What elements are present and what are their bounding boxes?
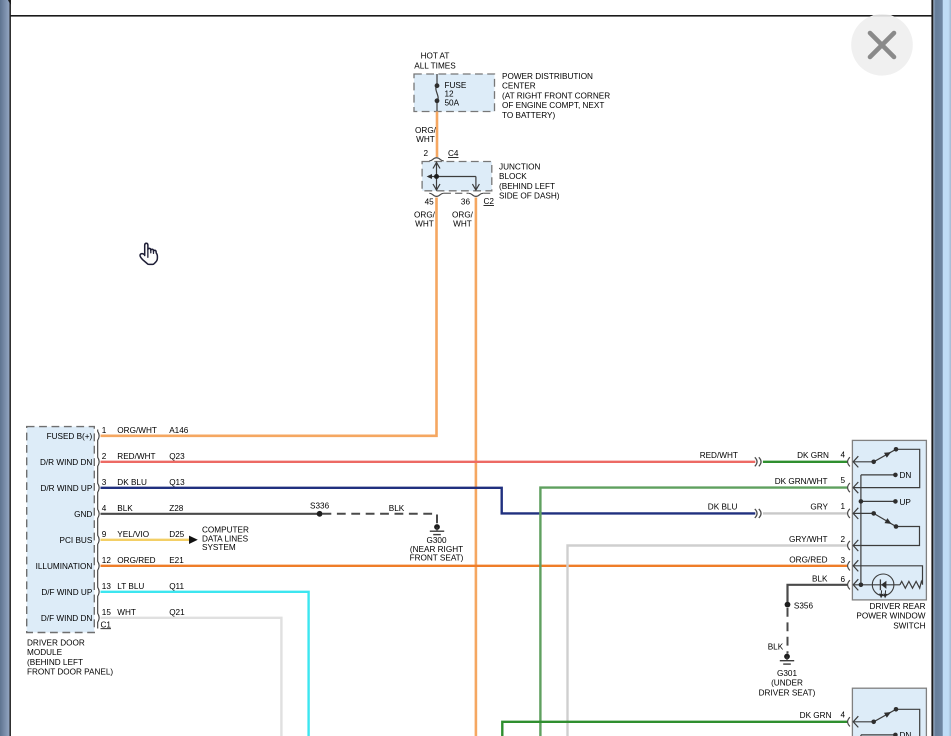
wire WHT module pin 15 down (101, 618, 282, 736)
second switch dots (871, 707, 898, 736)
svg-text:9: 9 (102, 530, 107, 539)
second switch box (passenger rear power window switch, cut off) (852, 688, 926, 736)
svg-text:C4: C4 (448, 149, 459, 158)
svg-text:DATA LINES: DATA LINES (202, 534, 249, 543)
svg-text:DK GRN/WHT: DK GRN/WHT (775, 477, 828, 486)
pin 4 number and wire labels BLK Z28 (102, 504, 184, 513)
switch pin entry chevron arrows (853, 456, 858, 590)
module connector C1 line with pin bumps (98, 430, 99, 629)
svg-text:Q21: Q21 (169, 608, 185, 617)
wire BLK module pin 4 to splice S336 (101, 513, 320, 515)
svg-text:DRIVER DOOR: DRIVER DOOR (27, 638, 85, 647)
svg-text:ALL TIMES: ALL TIMES (414, 61, 456, 70)
wire BLK dashed S356 to G301 (787, 608, 789, 654)
svg-text:(BEHIND LEFT: (BEHIND LEFT (27, 658, 83, 667)
svg-text:G300: G300 (426, 536, 446, 545)
top-left corner notch (8, 0, 11, 5)
DN line (861, 474, 896, 476)
pin 3 line to resistor rail (853, 566, 922, 585)
svg-text:13: 13 (102, 582, 112, 591)
pin 1 to pin 2 inner rect (853, 527, 919, 546)
vertical rail (860, 475, 862, 585)
svg-text:50A: 50A (445, 98, 460, 107)
svg-text:G301: G301 (777, 669, 797, 678)
svg-text:DRIVER SEAT): DRIVER SEAT) (759, 688, 816, 697)
connector arc C4 (429, 158, 443, 161)
pin 12 number and wire labels ORG/RED E21 (102, 556, 184, 565)
svg-text:Z28: Z28 (169, 504, 184, 513)
svg-text:(NEAR RIGHT: (NEAR RIGHT (410, 545, 463, 554)
pin 6 lamp line (853, 584, 900, 586)
label JUNCTION BLOCK (499, 163, 560, 201)
second switch pin 4 chevron (853, 716, 858, 727)
svg-text:12: 12 (102, 556, 112, 565)
svg-text:C2: C2 (484, 197, 495, 206)
svg-text:BLK: BLK (812, 574, 828, 583)
label COMPUTER DATA LINES SYSTEM (202, 526, 249, 552)
switch pin numbers (840, 450, 845, 584)
wire DK BLU module pin 3 (101, 488, 756, 514)
pin 4 to pin 5 inner rect (853, 449, 920, 487)
connector arc pin 45 (429, 193, 443, 196)
svg-text:2: 2 (840, 535, 845, 544)
wire DK GRN bottom run to second switch (502, 722, 847, 736)
svg-text:WHT: WHT (453, 220, 472, 229)
module caption DRIVER DOOR MODULE (27, 638, 113, 676)
svg-text:C1: C1 (101, 620, 112, 629)
caption DRIVER REAR POWER WINDOW SWITCH (856, 602, 925, 630)
svg-text:POWER DISTRIBUTION: POWER DISTRIBUTION (502, 72, 593, 81)
label ORG/WHT (415, 126, 437, 144)
wire DK GRN/WHT switch pin 5 down to bottom (540, 488, 847, 736)
wire BLK switch pin 6 to S356 (788, 585, 848, 605)
left page border (10, 0, 11, 736)
splice arcs RED/WHT to DK GRN (755, 457, 761, 466)
svg-text:BLK: BLK (117, 504, 133, 513)
svg-text:ORG/: ORG/ (452, 210, 474, 219)
svg-text:COMPUTER: COMPUTER (202, 526, 249, 535)
splice S356 dot (785, 602, 791, 608)
fuse value label FUSE 12 50A (445, 81, 467, 107)
svg-text:GRY/WHT: GRY/WHT (789, 535, 828, 544)
svg-text:1: 1 (102, 426, 107, 435)
svg-text:GND: GND (74, 510, 92, 519)
wire ORG/RED module pin 12 to switch pin 3 (101, 565, 848, 567)
right blue strip (933, 0, 951, 736)
connector C2 dashed line (444, 192, 469, 194)
svg-text:PCI BUS: PCI BUS (60, 536, 93, 545)
svg-text:HOT AT: HOT AT (421, 52, 450, 61)
label ORG/WHT left (414, 210, 436, 228)
svg-text:5: 5 (840, 476, 845, 485)
label POWER DISTRIBUTION CENTER (502, 72, 610, 120)
second switch pin 4 entry arc (848, 717, 850, 726)
pin 2 number and wire labels RED/WHT Q23 (102, 452, 185, 461)
svg-text:FRONT DOOR PANEL): FRONT DOOR PANEL) (27, 668, 113, 677)
connector arc pin 36 (469, 193, 483, 196)
svg-text:ORG/RED: ORG/RED (117, 556, 155, 565)
pin 13 number and wire labels LT BLU Q11 (102, 582, 185, 591)
resistor zigzag (900, 581, 923, 588)
svg-text:2: 2 (423, 149, 428, 158)
svg-text:(UNDER: (UNDER (771, 679, 803, 688)
svg-text:6: 6 (840, 575, 845, 584)
ground G300 symbol (430, 524, 444, 535)
svg-text:D/F WIND UP: D/F WIND UP (41, 588, 92, 597)
svg-text:FUSED B(+): FUSED B(+) (47, 432, 93, 441)
label G300 (NEAR RIGHT FRONT SEAT) (410, 536, 464, 562)
svg-text:RED/WHT: RED/WHT (117, 452, 155, 461)
svg-text:JUNCTION: JUNCTION (499, 163, 540, 172)
svg-text:ORG/: ORG/ (414, 210, 436, 219)
second switch blade arrowhead (884, 712, 891, 718)
svg-text:BLK: BLK (389, 504, 405, 513)
svg-text:ORG/WHT: ORG/WHT (117, 426, 157, 435)
wire LT BLU module pin 13 down (101, 592, 309, 736)
right page border (931, 0, 933, 736)
pin 15 number and wire labels WHT Q21 (102, 608, 185, 617)
second switch internals (853, 709, 920, 736)
svg-text:DK BLU: DK BLU (117, 478, 147, 487)
svg-text:36: 36 (461, 198, 471, 207)
svg-text:WHT: WHT (415, 220, 434, 229)
svg-text:E21: E21 (169, 556, 184, 565)
svg-text:2: 2 (102, 452, 107, 461)
svg-text:D/F WIND DN: D/F WIND DN (41, 614, 92, 623)
label G301 (UNDER DRIVER SEAT) (759, 669, 816, 697)
svg-text:RED/WHT: RED/WHT (700, 451, 738, 460)
svg-text:LT BLU: LT BLU (117, 582, 144, 591)
svg-text:SYSTEM: SYSTEM (202, 543, 236, 552)
hand cursor finger lines (148, 250, 154, 257)
wire ORG/WHT junction 45 down to module pin 1 (101, 198, 437, 436)
svg-text:SIDE OF DASH): SIDE OF DASH) (499, 192, 560, 201)
left blue strip (0, 0, 10, 736)
svg-text:D/R WIND UP: D/R WIND UP (40, 484, 92, 493)
top border seen through button (873, 15, 891, 17)
svg-text:Q23: Q23 (169, 452, 185, 461)
svg-text:D25: D25 (169, 530, 184, 539)
svg-text:DK GRN: DK GRN (797, 451, 829, 460)
svg-text:WHT: WHT (117, 608, 136, 617)
pin 4 contact line (853, 461, 874, 463)
arrow to computer data lines (189, 536, 198, 544)
wire RED/WHT module pin 2 to splice (101, 461, 756, 463)
splice S336 dot (317, 511, 323, 517)
label HOT AT ALL TIMES (414, 52, 456, 71)
switch pin entry arcs (848, 457, 850, 589)
svg-text:BLOCK: BLOCK (499, 172, 527, 181)
svg-text:45: 45 (425, 198, 435, 207)
illumination lamp circle (872, 574, 894, 596)
splice arcs DK BLU to GRY (755, 509, 761, 518)
svg-text:DRIVER REAR: DRIVER REAR (870, 602, 926, 611)
pin 1 number and wire labels ORG/WHT A146 (102, 426, 189, 435)
svg-text:CENTER: CENTER (502, 82, 536, 91)
hand cursor (140, 243, 157, 264)
switch contact dots (859, 447, 899, 587)
switch blade arrowhead pin 1 (885, 518, 892, 524)
fuse box (power distribution center) (414, 74, 495, 112)
wire GRY splice to switch pin 1 (763, 512, 848, 514)
close button circle (851, 14, 913, 76)
svg-text:YEL/VIO: YEL/VIO (117, 530, 149, 539)
svg-text:4: 4 (840, 710, 845, 719)
wire YEL/VIO module pin 9 (101, 539, 190, 541)
svg-text:DK GRN: DK GRN (800, 711, 832, 720)
pin 4 switch blade (874, 449, 896, 462)
lamp LED symbol (879, 579, 881, 590)
svg-text:ORG/: ORG/ (415, 126, 437, 135)
svg-text:Q11: Q11 (169, 582, 184, 591)
svg-text:Q13: Q13 (169, 478, 185, 487)
svg-text:MODULE: MODULE (27, 648, 63, 657)
svg-text:12: 12 (445, 90, 455, 99)
svg-text:DN: DN (900, 471, 912, 480)
svg-text:FRONT SEAT): FRONT SEAT) (410, 554, 464, 563)
pin 3 number and wire labels DK BLU Q13 (102, 478, 185, 487)
svg-text:S336: S336 (310, 502, 330, 511)
svg-text:TO BATTERY): TO BATTERY) (502, 111, 555, 120)
wire BLK dashed S336 to G300 (323, 514, 438, 524)
svg-text:POWER WINDOW: POWER WINDOW (856, 612, 925, 621)
svg-text:WHT: WHT (416, 135, 435, 144)
pin 1 switch blade (874, 513, 896, 526)
switch internal wiring (853, 449, 922, 585)
ground G301 symbol (780, 654, 794, 665)
svg-text:(AT RIGHT FRONT CORNER: (AT RIGHT FRONT CORNER (502, 91, 610, 100)
svg-text:3: 3 (840, 556, 845, 565)
junction node dot (434, 174, 439, 179)
fuse F12 symbol (436, 74, 438, 111)
svg-text:4: 4 (840, 450, 845, 459)
svg-text:FUSE: FUSE (445, 81, 467, 90)
junction left arrowhead (427, 174, 432, 179)
top page border (10, 15, 932, 17)
svg-text:3: 3 (102, 478, 107, 487)
svg-text:DK BLU: DK BLU (708, 503, 738, 512)
svg-text:S356: S356 (794, 602, 814, 611)
junction block internal wire (428, 162, 479, 191)
UP line (861, 500, 896, 502)
svg-text:D/R WIND DN: D/R WIND DN (40, 458, 92, 467)
label ORG/WHT right (452, 210, 474, 228)
svg-text:1: 1 (840, 502, 845, 511)
svg-text:A146: A146 (169, 426, 189, 435)
driver door module box (27, 427, 95, 633)
svg-text:ORG/RED: ORG/RED (789, 556, 827, 565)
svg-text:OF ENGINE COMPT, NEXT: OF ENGINE COMPT, NEXT (502, 101, 604, 110)
svg-text:ILLUMINATION: ILLUMINATION (36, 562, 93, 571)
svg-text:(BEHIND LEFT: (BEHIND LEFT (499, 182, 555, 191)
pin 1 contact line (853, 512, 874, 514)
svg-text:15: 15 (102, 608, 112, 617)
close button X (870, 33, 894, 57)
switch box driver rear power window switch (852, 440, 926, 600)
wire ORG/WHT junction 36 down to bottom (475, 198, 478, 736)
svg-text:4: 4 (102, 504, 107, 513)
junction block box (422, 162, 492, 191)
wire ORG/WHT fuse to junction block (436, 112, 439, 158)
svg-text:UP: UP (900, 498, 912, 507)
wire DK GRN splice to switch pin 4 (763, 461, 848, 463)
pin 9 number and wire labels YEL/VIO D25 (102, 530, 185, 539)
svg-text:DN: DN (900, 731, 912, 736)
wire GRY/WHT switch pin 2 down to bottom (568, 546, 848, 736)
svg-text:GRY: GRY (810, 503, 828, 512)
switch blade arrowhead pin 4 (884, 452, 891, 458)
lamp emission arrows (880, 590, 887, 597)
svg-text:BLK: BLK (768, 642, 784, 651)
svg-text:SWITCH: SWITCH (893, 621, 925, 630)
